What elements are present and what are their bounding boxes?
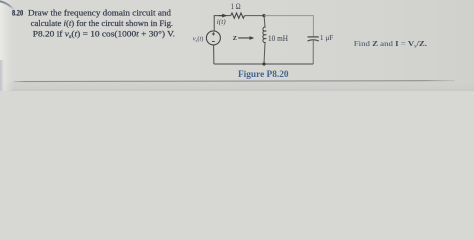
label 1 ohm (231, 2, 241, 11)
inductor L = 10 mH (263, 27, 266, 43)
impedance label Z (233, 35, 238, 42)
svg-text:i(t): i(t) (217, 19, 227, 26)
label 10 mH (268, 34, 288, 43)
wire: source top lead to resistor (top-left) (214, 16, 230, 31)
svg-text:Z: Z (233, 35, 238, 42)
capacitor C top plate (308, 36, 319, 38)
page curl shadow (decorative) (0, 1, 14, 9)
svg-text:Find Z and I = Vs/Z.: Find Z and I = Vs/Z. (354, 39, 427, 49)
svg-text:10 mH: 10 mH (268, 34, 288, 43)
svg-text:1 Ω: 1 Ω (231, 2, 241, 11)
problem text line 1 (28, 8, 171, 17)
node B (bottom junction dot) (262, 62, 265, 65)
wire: node A to capacitor branch corner (264, 16, 313, 37)
svg-text:Draw the frequency domain circ: Draw the frequency domain circuit and (28, 8, 171, 17)
svg-text:1 μF: 1 μF (320, 33, 334, 42)
svg-text:8.20: 8.20 (12, 8, 23, 17)
wire: inductor to bottom rail (264, 42, 265, 64)
problem number 8.20 (12, 8, 23, 17)
svg-text:Figure P8.20: Figure P8.20 (238, 69, 289, 79)
source polarity - (212, 41, 215, 43)
source polarity + (212, 32, 215, 35)
current arrow i(t) (219, 14, 228, 18)
node A (top junction dot) (262, 14, 265, 17)
capacitor lead bottom (312, 41, 314, 64)
label vs(t) (193, 36, 204, 43)
svg-text:vs(t): vs(t) (193, 36, 204, 43)
capacitor C bottom plate (308, 40, 319, 41)
impedance arrow (238, 36, 254, 40)
bottom horizontal rule (14, 81, 455, 82)
problem text line 3 (33, 30, 175, 41)
problem text line 2 (31, 19, 174, 28)
label 1 uF (320, 33, 334, 42)
label i(t) (217, 19, 227, 26)
wire: bottom rail (214, 63, 313, 65)
svg-text:calculate i(t) for the circuit: calculate i(t) for the circuit shown in … (31, 19, 174, 28)
resistor R = 1 ohm (231, 13, 245, 18)
svg-text:P8.20 if vs(t) = 10 cos(1000t: P8.20 if vs(t) = 10 cos(1000t + 30°) V. (33, 30, 175, 41)
figure caption Figure P8.20 (238, 69, 289, 79)
wire: resistor to node A (245, 15, 265, 17)
voltage source Vs (206, 31, 220, 45)
wire: source bottom lead (213, 45, 215, 64)
wire: node A down to inductor (263, 16, 266, 28)
annotation: Find Z and I = Vs/Z. (354, 39, 427, 49)
